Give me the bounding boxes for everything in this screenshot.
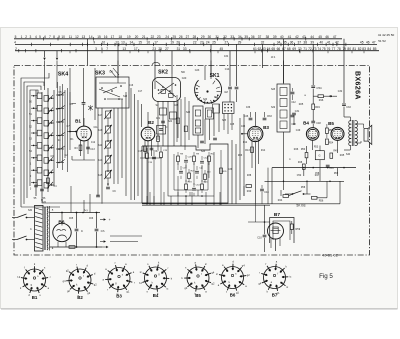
svg-text:B2: B2: [148, 120, 154, 125]
svg-text:C32: C32: [338, 90, 343, 93]
wire drop to IF transformer: [283, 39, 285, 83]
svg-text:C: C: [166, 126, 168, 129]
wire bundle box to B3: [232, 114, 244, 204]
svg-text:9: 9: [58, 35, 60, 39]
label f+y: [82, 208, 88, 214]
svg-text:B1: B1: [75, 119, 81, 124]
wire SK4 bottom to chassis run: [41, 156, 60, 203]
svg-text:6: 6: [44, 35, 46, 39]
wire - cable harness bus line 1: [14, 38, 342, 40]
resistor R52 between tubes: [326, 124, 334, 138]
svg-text:B6: B6: [58, 220, 64, 226]
capacitor C54: [311, 86, 322, 96]
svg-text:C21: C21: [156, 118, 161, 120]
svg-text:R36: R36: [238, 155, 243, 157]
arrow - heater feed a: [100, 240, 106, 242]
misc right-mid labels: [289, 90, 344, 177]
svg-text:23: 23: [157, 35, 161, 39]
svg-text:20: 20: [135, 35, 139, 39]
svg-text:43: 43: [302, 35, 306, 39]
svg-text:C42: C42: [291, 102, 296, 104]
svg-text:41: 41: [327, 41, 331, 45]
svg-text:Ch: Ch: [101, 229, 105, 233]
svg-text:84: 84: [367, 47, 371, 51]
wire - B7 connections down: [248, 204, 265, 222]
resistor R16 horizontal run: [313, 95, 337, 102]
svg-text:C10: C10: [257, 237, 262, 240]
svg-text:C34: C34: [224, 56, 229, 58]
svg-text:C52: C52: [297, 174, 302, 177]
svg-text:C66: C66: [89, 218, 94, 220]
svg-text:16: 16: [104, 35, 108, 39]
svg-text:33: 33: [183, 47, 187, 51]
svg-text:R46: R46: [294, 148, 299, 151]
tube socket base diagram B1: [17, 262, 50, 300]
svg-text:C12: C12: [91, 142, 96, 144]
svg-text:S23: S23: [186, 112, 191, 114]
svg-text:SK2: SK2: [158, 70, 168, 76]
svg-text:82: 82: [358, 47, 362, 51]
svg-text:5: 5: [15, 35, 17, 39]
svg-text:C31: C31: [329, 168, 334, 170]
svg-text:42: 42: [295, 35, 299, 39]
IF transformer small boxes below SK2: [160, 108, 177, 123]
svg-text:C58: C58: [315, 173, 320, 175]
svg-text:46: 46: [325, 35, 329, 39]
padder capacitor block: [223, 102, 235, 134]
svg-text:61: 61: [253, 47, 257, 51]
tube B4 (AF amplifier): [306, 128, 319, 141]
bus connection stubs below line3: [70, 51, 364, 54]
svg-text:45: 45: [360, 41, 364, 45]
resistor R46: [278, 190, 293, 202]
svg-text:70: 70: [298, 47, 302, 51]
svg-text:46: 46: [366, 41, 370, 45]
svg-text:12: 12: [75, 35, 79, 39]
grid network box below B4 B5: [298, 140, 338, 176]
wire - long drop far right: [343, 39, 345, 103]
svg-text:r: r: [259, 271, 260, 275]
svg-text:3: 3: [30, 35, 32, 39]
svg-text:r: r: [50, 275, 51, 279]
svg-text:S30: S30: [28, 210, 33, 212]
wire drop to C8 trimmer: [87, 39, 89, 66]
tube socket base diagram B7: [258, 261, 292, 298]
svg-text:B3: B3: [263, 125, 269, 130]
wire - vertical at x70: [69, 68, 71, 132]
svg-text:13: 13: [121, 41, 125, 45]
tube B6 (AZ1 rectifier): [53, 213, 71, 248]
svg-text:C11: C11: [93, 127, 98, 129]
wire - chassis run above transformer: [60, 203, 148, 242]
svg-text:2: 2: [15, 47, 17, 51]
cable bus wire-number labels row 3: [15, 47, 376, 51]
svg-text:S25: S25: [222, 120, 227, 122]
svg-text:75: 75: [322, 47, 326, 51]
components inside coupling box staircase: [177, 152, 216, 197]
svg-text:S22: S22: [168, 121, 173, 123]
svg-text:33: 33: [230, 35, 234, 39]
svg-text:S29: S29: [271, 107, 276, 109]
svg-text:47: 47: [333, 35, 337, 39]
svg-text:40: 40: [280, 35, 284, 39]
tube socket base diagram B6: [216, 260, 250, 298]
svg-text:66: 66: [277, 47, 281, 51]
svg-text:R55: R55: [334, 173, 339, 175]
wire drop to SK2 left: [154, 51, 156, 78]
svg-text:25: 25: [172, 35, 176, 39]
svg-text:7: 7: [49, 35, 51, 39]
svg-text:15: 15: [97, 35, 101, 39]
svg-text:R53: R53: [314, 147, 319, 149]
svg-text:S18: S18: [123, 96, 128, 98]
svg-text:30: 30: [208, 35, 212, 39]
oscillator coil pack below SK1: [193, 104, 220, 153]
svg-text:62: 62: [258, 47, 262, 51]
svg-text:R16: R16: [319, 99, 324, 102]
coil ladder S17 S19 S11 S13 S15: [98, 92, 126, 204]
ink layer: [12, 33, 394, 300]
svg-text:38: 38: [303, 41, 307, 45]
svg-text:C26: C26: [214, 97, 219, 99]
AF coupling network box: [142, 144, 228, 203]
svg-text:15: 15: [138, 41, 142, 45]
nested screen box inside network: [168, 150, 214, 196]
svg-text:R40: R40: [247, 190, 252, 193]
svg-text:14: 14: [130, 41, 134, 45]
svg-text:22: 22: [151, 35, 155, 39]
wire - tube B3 leads: [241, 112, 268, 204]
svg-text:R38: R38: [247, 175, 252, 177]
svg-text:27: 27: [186, 35, 190, 39]
left edge number of bus: [15, 35, 17, 39]
svg-text:R25: R25: [299, 103, 304, 106]
svg-text:1: 1: [21, 35, 23, 39]
wire - cable harness bus line 2: [15, 43, 377, 45]
svg-text:79: 79: [342, 47, 346, 51]
svg-text:65: 65: [271, 47, 275, 51]
svg-text:76: 76: [327, 47, 331, 51]
svg-text:S26: S26: [203, 99, 208, 101]
wire - B2 bottom rail: [140, 157, 162, 159]
svg-text:B2: B2: [77, 295, 83, 300]
svg-text:41 42 45 50: 41 42 45 50: [378, 33, 395, 37]
svg-text:31: 31: [177, 47, 181, 51]
svg-text:C44: C44: [264, 191, 269, 194]
svg-text:39: 39: [310, 41, 314, 45]
svg-text:8: 8: [53, 35, 55, 39]
resistor in heater rail: [69, 246, 75, 249]
capacitor C10: [257, 205, 269, 252]
svg-text:37: 37: [298, 41, 302, 45]
svg-text:r: r: [168, 266, 169, 270]
capacitor C6 on grid feed: [69, 68, 85, 126]
resistor R40 bottom middle: [244, 185, 252, 196]
cable bus wire-number labels top-right corner: [378, 33, 395, 43]
wire - B1 cathode rail: [72, 156, 95, 160]
svg-text:R12: R12: [243, 142, 248, 144]
switch SK bis: [285, 191, 311, 208]
svg-text:B3: B3: [116, 294, 122, 299]
svg-text:18: 18: [119, 35, 123, 39]
resistor R13 below B3: [245, 147, 253, 153]
svg-text:69: 69: [292, 47, 296, 51]
switch SK4 nested loop wiring: [21, 73, 60, 207]
svg-text:C46: C46: [244, 115, 249, 118]
svg-text:74: 74: [317, 47, 321, 51]
svg-text:28: 28: [193, 35, 197, 39]
svg-text:17: 17: [134, 47, 138, 51]
svg-text:C36: C36: [246, 107, 251, 109]
svg-text:17: 17: [111, 35, 115, 39]
switch SK3 label: [95, 69, 113, 76]
wire drop mid-right: [262, 44, 264, 68]
tube B2 (EF22 IF amplifier): [141, 127, 155, 141]
misc component labels sprinkle: [28, 56, 339, 220]
svg-text:22: 22: [193, 41, 197, 45]
svg-text:r: r: [76, 262, 77, 266]
capacitor C33 far right drop: [342, 104, 351, 117]
trimmer capacitors SK4 bottom: [34, 178, 50, 200]
tube socket base diagram B5: [181, 261, 215, 298]
loudspeaker: [356, 124, 372, 145]
svg-text:r: r: [134, 281, 135, 285]
capacitor C13 below B1: [86, 147, 95, 151]
output transformer T2: [344, 117, 358, 156]
svg-text:R14: R14: [261, 150, 266, 152]
arrow - heater feed b: [102, 246, 109, 248]
svg-text:R45: R45: [340, 154, 345, 157]
tube B5 (output pentode): [331, 127, 344, 140]
svg-text:S31: S31: [42, 202, 47, 204]
svg-text:41: 41: [288, 35, 292, 39]
wire - feeds up from PSU: [71, 186, 90, 213]
svg-text:67: 67: [282, 47, 286, 51]
svg-text:29: 29: [201, 35, 205, 39]
cable bus wire-number labels row 2: [14, 41, 376, 45]
svg-text:83: 83: [362, 47, 366, 51]
svg-text:81: 81: [352, 47, 356, 51]
wire - junction drops inside box: [149, 192, 221, 205]
arrow - HT plus feed: [100, 218, 111, 222]
svg-text:20: 20: [176, 41, 180, 45]
capacitor C48: [311, 121, 321, 127]
svg-text:C35: C35: [230, 124, 235, 126]
svg-text:23: 23: [152, 47, 156, 51]
cable bus wire-number labels row 1: [21, 35, 337, 39]
svg-text:R50: R50: [301, 149, 306, 151]
wire - cable harness bus line 3: [15, 50, 379, 52]
svg-text:10: 10: [102, 41, 106, 45]
wire - tube B2 leads: [145, 112, 152, 204]
resistor R54: [326, 139, 334, 145]
svg-text:3: 3: [95, 47, 97, 51]
filter capacitor Ch: [95, 213, 105, 248]
svg-text:25: 25: [212, 41, 216, 45]
resistor R56: [312, 181, 328, 202]
switch SK4 right contact column: [45, 61, 77, 173]
svg-text:1M: 1M: [224, 91, 227, 94]
wire drop to grid cap b: [235, 44, 239, 102]
svg-text:19: 19: [170, 41, 174, 45]
svg-text:R52: R52: [329, 130, 334, 132]
svg-text:f+y: f+y: [84, 208, 88, 212]
svg-text:4: 4: [35, 35, 37, 39]
mains input switch lower: [12, 236, 35, 240]
svg-text:44: 44: [310, 35, 314, 39]
cable bus connection ticks: [19, 37, 346, 52]
svg-text:45: 45: [318, 35, 322, 39]
filter capacitor C: [75, 213, 84, 248]
svg-text:9: 9: [93, 41, 95, 45]
svg-text:23: 23: [200, 41, 204, 45]
svg-text:B6: B6: [230, 293, 236, 298]
svg-text:R44: R44: [278, 199, 283, 202]
svg-text:C43: C43: [291, 124, 296, 126]
svg-text:C14: C14: [225, 68, 230, 71]
svg-text:36: 36: [251, 35, 255, 39]
svg-text:C16: C16: [129, 85, 134, 87]
svg-text:SK4: SK4: [58, 72, 68, 78]
svg-text:37: 37: [258, 35, 262, 39]
svg-text:4: 4: [14, 41, 16, 45]
resistor R19: [312, 96, 321, 121]
switch SK4 wave-band ladder: [29, 88, 54, 196]
svg-text:R19: R19: [315, 106, 320, 109]
tube B1 (ECH21 frequency changer): [77, 126, 92, 141]
svg-text:Fig 5: Fig 5: [319, 273, 333, 280]
switch SK1 rotary wafer: [194, 61, 229, 105]
tube B7 shield box: [270, 218, 294, 244]
svg-text:SK3: SK3: [95, 71, 105, 77]
svg-text:C23: C23: [195, 69, 200, 72]
wire drop to grid cap a: [224, 51, 232, 102]
trimmer caps SK3 bottom: [96, 187, 116, 197]
switch SK2 wafer: [153, 74, 187, 150]
svg-text:C25: C25: [174, 105, 179, 107]
svg-text:34: 34: [238, 35, 242, 39]
svg-text:C20: C20: [182, 77, 187, 80]
svg-text:R58: R58: [301, 187, 306, 189]
svg-text:C54: C54: [316, 86, 322, 90]
svg-text:S24: S24: [201, 150, 206, 153]
svg-text:R59: R59: [296, 228, 301, 231]
svg-text:5: 5: [39, 35, 41, 39]
svg-text:47: 47: [372, 41, 376, 45]
wire bundle between SK2 and SK1: [176, 95, 189, 150]
svg-text:11: 11: [69, 35, 73, 39]
wire - tube B1 leads: [69, 118, 88, 160]
svg-text:13: 13: [82, 35, 86, 39]
tube socket base diagram B3: [102, 261, 134, 299]
chassis dashed border: [14, 66, 370, 256]
svg-text:B5: B5: [328, 121, 334, 126]
svg-text:7: 7: [106, 47, 108, 51]
resistor R59: [290, 221, 300, 234]
wire - B1 anode line up: [94, 68, 96, 120]
trimmer cross symbol: [88, 105, 92, 111]
wire - aerial drop with arrow: [43, 51, 45, 61]
resistor R3 below B1: [74, 145, 81, 151]
svg-text:B1: B1: [32, 295, 38, 300]
svg-text:R54: R54: [329, 143, 334, 145]
svg-text:35: 35: [244, 35, 248, 39]
wire drop to SK3: [117, 44, 119, 78]
wire bundle SK3 to B2: [131, 88, 142, 200]
svg-text:27: 27: [225, 41, 229, 45]
svg-text:38: 38: [266, 35, 270, 39]
grid caps above B3: [244, 112, 273, 120]
svg-text:+: +: [109, 218, 111, 222]
wire - bottom right rail to border: [270, 181, 340, 204]
svg-text:45: 45: [220, 47, 224, 51]
svg-text:S40: S40: [346, 153, 351, 156]
svg-text:36: 36: [290, 41, 294, 45]
svg-text:G: G: [318, 154, 320, 158]
power transformer winding: [30, 206, 54, 251]
screen components right of B2: [157, 126, 168, 151]
svg-text:34: 34: [277, 41, 281, 45]
svg-text:71: 71: [303, 47, 307, 51]
svg-text:10 4: 10 4: [271, 57, 276, 59]
switch SK3 contact box: [96, 61, 129, 109]
wire - earth drop with arrow: [56, 51, 58, 61]
svg-text:80: 80: [347, 47, 351, 51]
svg-text:R33: R33: [267, 115, 272, 118]
svg-text:B4: B4: [303, 120, 309, 125]
svg-text:72: 72: [308, 47, 312, 51]
wire drop to C54: [312, 44, 314, 85]
junction dots in coupling box: [146, 150, 227, 205]
svg-text:2: 2: [25, 35, 27, 39]
svg-text:78: 78: [337, 47, 341, 51]
svg-text:12: 12: [115, 41, 119, 45]
power transformer core: [35, 206, 46, 252]
wire - right section rail 2: [265, 181, 345, 183]
svg-text:C65: C65: [69, 218, 74, 220]
tube B3 (EBL21 detector): [248, 126, 263, 141]
svg-text:24: 24: [206, 41, 210, 45]
svg-text:5: 5: [101, 47, 103, 51]
svg-text:C31: C31: [295, 110, 300, 113]
svg-text:29: 29: [238, 41, 242, 45]
svg-text:r: r: [107, 288, 108, 292]
svg-text:21: 21: [142, 35, 146, 39]
svg-text:51 52: 51 52: [378, 39, 386, 43]
mains input switch upper: [12, 214, 35, 218]
svg-text:C45: C45: [241, 126, 246, 128]
svg-text:40: 40: [320, 41, 324, 45]
wire - PSU verticals: [272, 168, 338, 204]
svg-text:B4: B4: [153, 293, 159, 298]
anode coupling cap left of B4: [292, 110, 300, 125]
tube socket base diagram B4: [139, 260, 173, 298]
svg-text:R48: R48: [298, 162, 303, 164]
tube socket base diagram B2: [63, 262, 98, 300]
svg-text:85: 85: [373, 47, 377, 51]
svg-text:68: 68: [287, 47, 291, 51]
svg-text:C48: C48: [316, 122, 321, 125]
svg-text:S28: S28: [271, 89, 276, 91]
svg-text:39: 39: [273, 35, 277, 39]
svg-text:19: 19: [127, 35, 131, 39]
svg-text:27: 27: [165, 47, 169, 51]
svg-text:C39: C39: [228, 169, 233, 171]
svg-text:C49: C49: [296, 129, 301, 132]
IF transformer can: [277, 61, 294, 182]
cathode components below B2: [138, 146, 159, 153]
wire - right section rail 1: [272, 167, 356, 169]
